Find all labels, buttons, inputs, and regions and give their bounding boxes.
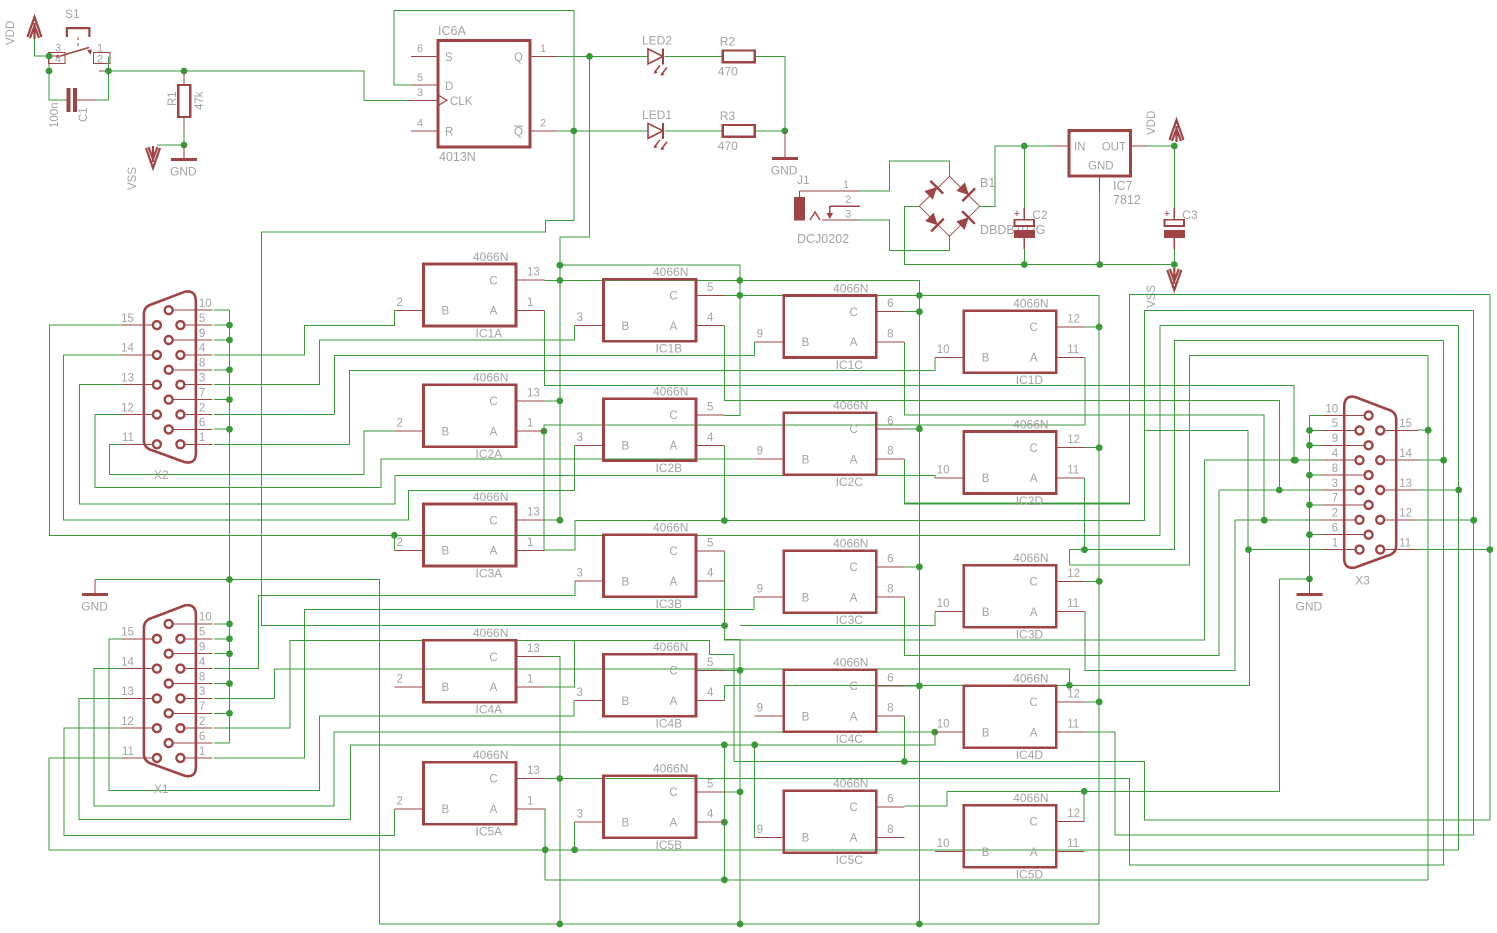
wire Q net drop to switch matrix xyxy=(560,56,590,265)
junction xyxy=(1066,682,1073,689)
junction xyxy=(1021,261,1028,268)
wire IC3B A to X3 pin4 south loop xyxy=(724,460,1204,640)
junction xyxy=(556,921,563,928)
junction xyxy=(721,741,728,748)
power symbol VDD (top-left) xyxy=(28,17,42,39)
svg-text:R: R xyxy=(445,127,453,139)
junction xyxy=(916,308,923,315)
svg-text:5: 5 xyxy=(707,537,713,549)
svg-text:15: 15 xyxy=(121,627,134,639)
wire IC2B A drop xyxy=(723,445,725,520)
4066 analog switch IC5D xyxy=(935,791,1085,882)
svg-text:14: 14 xyxy=(1399,448,1412,460)
svg-text:C: C xyxy=(1030,817,1038,829)
svg-text:IC1A: IC1A xyxy=(476,326,503,340)
4066 analog switch IC1B xyxy=(575,265,725,356)
svg-text:DBDB102G: DBDB102G xyxy=(980,223,1045,237)
wire IC7 GND to rail xyxy=(1099,191,1101,264)
wire row1 C net east xyxy=(560,280,920,924)
svg-text:4: 4 xyxy=(707,687,714,699)
svg-text:IC3A: IC3A xyxy=(476,566,503,580)
svg-text:12: 12 xyxy=(121,402,134,414)
svg-text:1: 1 xyxy=(1332,537,1338,549)
connector J1 DCJ0202 power jack xyxy=(794,191,860,220)
svg-text:GND: GND xyxy=(1296,600,1323,614)
connector X2 (DB15) xyxy=(121,291,213,482)
svg-text:12: 12 xyxy=(1067,314,1080,326)
wire X3 GND tap xyxy=(1279,578,1309,580)
svg-text:4066N: 4066N xyxy=(473,748,508,762)
junction xyxy=(721,876,728,883)
svg-text:4066N: 4066N xyxy=(833,281,868,295)
svg-text:13: 13 xyxy=(527,765,540,777)
svg-text:2: 2 xyxy=(1332,508,1338,520)
junction xyxy=(1096,698,1103,705)
svg-text:1: 1 xyxy=(527,537,533,549)
wire OUT to VDD/C3 xyxy=(1146,145,1174,147)
svg-text:+: + xyxy=(1014,208,1020,220)
svg-text:C: C xyxy=(1030,697,1038,709)
svg-text:+: + xyxy=(1164,208,1170,220)
wire GND stem xyxy=(784,131,786,157)
svg-text:11: 11 xyxy=(122,432,134,444)
wire Q vertical colA xyxy=(559,265,561,520)
ground (R1) xyxy=(171,158,197,161)
wire Q net spine row1 xyxy=(560,265,740,415)
junction xyxy=(1306,442,1313,449)
svg-text:11: 11 xyxy=(122,746,134,758)
wire IC1B C join xyxy=(724,294,740,296)
wire X1 pin2 to IC4A A net xyxy=(214,640,575,728)
svg-text:11: 11 xyxy=(1399,537,1411,549)
4066 analog switch IC3D xyxy=(935,551,1085,642)
wire bridge minus to GND rail xyxy=(905,206,1175,264)
svg-text:11: 11 xyxy=(1067,465,1079,477)
wire VDD to S1 xyxy=(35,39,50,56)
svg-text:7812: 7812 xyxy=(1113,193,1141,207)
svg-text:B: B xyxy=(802,833,810,845)
wire X1 pin6 xyxy=(214,742,230,744)
svg-text:A: A xyxy=(670,696,678,708)
junction xyxy=(916,563,923,570)
svg-text:A: A xyxy=(1030,353,1038,365)
svg-text:1: 1 xyxy=(199,432,205,444)
svg-text:4066N: 4066N xyxy=(653,521,688,535)
svg-text:12: 12 xyxy=(1399,508,1412,520)
svg-text:R1: R1 xyxy=(167,91,179,106)
wire IC5B B riser xyxy=(574,822,576,850)
svg-text:C: C xyxy=(489,396,497,408)
svg-text:D: D xyxy=(445,81,453,93)
wire X3 pin15 vertical xyxy=(1427,356,1429,880)
wire Qbar to LED1 xyxy=(557,130,648,132)
svg-text:5: 5 xyxy=(417,72,423,84)
junction xyxy=(737,921,744,928)
4066 analog switch IC1A xyxy=(395,250,545,341)
svg-text:B: B xyxy=(982,847,990,859)
svg-text:4066N: 4066N xyxy=(1013,297,1048,311)
ground (X1/X2) xyxy=(82,593,108,596)
svg-text:13: 13 xyxy=(527,643,540,655)
4066 analog switch IC1C xyxy=(755,281,905,372)
svg-text:8: 8 xyxy=(887,824,893,836)
svg-text:2: 2 xyxy=(199,716,205,728)
svg-text:B: B xyxy=(622,576,630,588)
svg-text:IC4B: IC4B xyxy=(656,716,683,730)
svg-text:4066N: 4066N xyxy=(833,777,868,791)
svg-text:8: 8 xyxy=(199,671,205,683)
svg-text:4066N: 4066N xyxy=(473,371,508,385)
svg-text:A: A xyxy=(490,682,498,694)
junction xyxy=(226,576,233,583)
svg-text:6: 6 xyxy=(887,672,893,684)
4066 analog switch IC2A xyxy=(395,371,545,462)
svg-text:Q: Q xyxy=(514,127,523,139)
junction xyxy=(1261,517,1268,524)
svg-text:5: 5 xyxy=(707,657,713,669)
ground (LED) xyxy=(772,157,798,160)
wire S1 to R1/CLK net xyxy=(109,71,410,100)
junction xyxy=(226,366,233,373)
junction xyxy=(226,621,233,628)
svg-text:1: 1 xyxy=(199,746,205,758)
junction xyxy=(916,682,923,689)
wire bus 778 loop to X3 pin14 bus xyxy=(560,779,1445,865)
svg-text:9: 9 xyxy=(757,446,763,458)
wire R1 to GND xyxy=(183,131,185,145)
wire X1 pin13 bus xyxy=(79,698,724,819)
svg-text:C: C xyxy=(489,652,497,664)
svg-text:3: 3 xyxy=(417,87,423,99)
svg-text:11: 11 xyxy=(1067,344,1079,356)
wire xyxy=(157,144,184,146)
4066 analog switch IC3C xyxy=(755,536,905,627)
wire C1 right to junction xyxy=(95,57,109,101)
svg-text:4066N: 4066N xyxy=(1013,551,1048,565)
svg-text:A: A xyxy=(850,711,858,723)
junction xyxy=(1291,457,1298,464)
svg-text:15: 15 xyxy=(1399,418,1412,430)
junction xyxy=(751,741,758,748)
svg-text:B: B xyxy=(982,607,990,619)
resistor R3 470 xyxy=(723,125,755,137)
svg-text:10: 10 xyxy=(937,598,950,610)
wire J1 pin3 to bridge bottom xyxy=(859,220,950,251)
svg-text:10: 10 xyxy=(199,298,212,310)
wire X1 pin14 to IC5A B xyxy=(64,728,395,835)
svg-text:11: 11 xyxy=(1067,598,1079,610)
wire C-col to D-col link xyxy=(740,295,1099,924)
svg-text:9: 9 xyxy=(757,703,763,715)
svg-text:IC1C: IC1C xyxy=(836,358,864,372)
wire GND comb vertical X2/X1 xyxy=(229,310,231,743)
svg-text:VDD: VDD xyxy=(5,21,17,45)
svg-text:A: A xyxy=(850,592,858,604)
svg-text:IC6A: IC6A xyxy=(438,24,466,38)
connector X3 (DB15) xyxy=(1322,397,1418,588)
wire IC1D A / IC2A A / IC3A A bus xyxy=(544,357,1085,550)
svg-text:8: 8 xyxy=(887,329,893,341)
junction xyxy=(1470,517,1477,524)
svg-text:4: 4 xyxy=(417,118,423,130)
svg-text:14: 14 xyxy=(121,343,134,355)
wire C3 bottom to rail xyxy=(1173,249,1175,265)
wire R2 to GND corner xyxy=(755,56,785,130)
wire IC1C A output to X3 pin2 xyxy=(905,342,1265,520)
svg-text:6: 6 xyxy=(887,553,893,565)
svg-text:2: 2 xyxy=(97,54,103,66)
svg-text:CLK: CLK xyxy=(450,96,473,108)
junction xyxy=(916,425,923,432)
junction xyxy=(931,729,938,736)
junction xyxy=(736,277,743,284)
junction xyxy=(1261,517,1268,524)
svg-text:470: 470 xyxy=(718,139,738,153)
svg-text:470: 470 xyxy=(718,64,738,78)
svg-text:GND: GND xyxy=(771,164,798,178)
wire LED2 to R2 xyxy=(665,55,723,57)
wire X1 gnd pin xyxy=(214,623,230,625)
wire xyxy=(48,56,50,71)
svg-text:A: A xyxy=(670,576,678,588)
wire IC2A C join xyxy=(544,400,560,402)
svg-text:12: 12 xyxy=(1067,568,1080,580)
svg-text:R3: R3 xyxy=(720,109,736,123)
wire GND drop to bottom bus xyxy=(230,580,380,925)
wire X1 gnd pin xyxy=(214,653,230,655)
wire IC4C C join xyxy=(904,685,919,687)
svg-text:6: 6 xyxy=(199,417,205,429)
junction xyxy=(1081,546,1088,553)
junction xyxy=(557,262,564,269)
junction xyxy=(105,68,112,75)
svg-text:S1: S1 xyxy=(65,7,80,21)
wire IC2C C join xyxy=(904,428,919,430)
wire IC5A A riser xyxy=(543,809,546,880)
wire X3 pin13 vertical xyxy=(1458,325,1460,849)
wire IC4D C join xyxy=(1085,701,1100,703)
wire IC3B C riser to Qbar xyxy=(724,551,726,626)
svg-text:6: 6 xyxy=(199,731,205,743)
svg-text:IC2D: IC2D xyxy=(1016,494,1044,508)
junction xyxy=(391,532,398,539)
svg-text:B: B xyxy=(622,817,630,829)
svg-text:7: 7 xyxy=(199,701,205,713)
wire X1 pin1 to IC3C B xyxy=(214,597,754,758)
wire GND tap xyxy=(95,579,229,581)
wire IC2D A to R4 bus xyxy=(1084,478,1086,550)
wire C2 bottom to rail xyxy=(1023,249,1025,265)
junction xyxy=(721,819,728,826)
svg-text:C3: C3 xyxy=(1182,208,1198,222)
LED LED2 xyxy=(648,48,667,75)
svg-text:3: 3 xyxy=(199,373,205,385)
wire IC5A C join xyxy=(544,778,560,780)
svg-text:10: 10 xyxy=(937,719,950,731)
svg-text:12: 12 xyxy=(1067,808,1080,820)
wire LED1 to R3 xyxy=(665,130,723,132)
svg-text:8: 8 xyxy=(887,703,893,715)
junction xyxy=(226,322,233,329)
junction xyxy=(1306,502,1313,509)
svg-text:10: 10 xyxy=(937,838,950,850)
wire IC1B A to X3 pin3 xyxy=(724,326,1279,490)
svg-text:9: 9 xyxy=(757,824,763,836)
junction xyxy=(557,277,564,284)
wire J1 pin1 to bridge top xyxy=(860,161,950,191)
wire IC4B C join xyxy=(724,669,740,671)
svg-text:10: 10 xyxy=(199,612,212,624)
resistor R1 47k xyxy=(178,71,190,131)
wire IC3C A to X3 pin3 south loop xyxy=(904,490,1219,655)
power symbol VSS (top-left) xyxy=(146,146,160,168)
svg-text:5: 5 xyxy=(1332,418,1338,430)
wire C2 top xyxy=(1023,146,1025,208)
junction xyxy=(1455,487,1462,494)
svg-text:3: 3 xyxy=(199,686,205,698)
svg-text:A: A xyxy=(850,454,858,466)
svg-text:A: A xyxy=(1030,847,1038,859)
svg-text:3: 3 xyxy=(845,209,851,221)
svg-text:GND: GND xyxy=(81,600,108,614)
svg-text:IC5B: IC5B xyxy=(656,838,683,852)
junction xyxy=(736,292,743,299)
junction xyxy=(1276,487,1283,494)
svg-text:10: 10 xyxy=(1325,403,1338,415)
wire bus 761 loop to X3 pin11 bus xyxy=(734,762,1490,821)
junction xyxy=(571,846,578,853)
svg-text:6: 6 xyxy=(887,298,893,310)
wire IC5C C hook xyxy=(904,791,947,806)
4066 analog switch IC1D xyxy=(935,297,1085,388)
svg-text:DCJ0202: DCJ0202 xyxy=(797,232,849,246)
svg-text:13: 13 xyxy=(527,507,540,519)
svg-text:C: C xyxy=(849,802,857,814)
svg-text:9: 9 xyxy=(757,584,763,596)
power symbol VSS (supply) xyxy=(1167,268,1181,290)
svg-text:9: 9 xyxy=(199,642,205,654)
wire X2 pin14 to IC2B B xyxy=(64,355,575,520)
junction xyxy=(226,680,233,687)
wire R3 to GND xyxy=(755,130,785,132)
wire X3 pin4 line xyxy=(1205,459,1323,461)
svg-text:4066N: 4066N xyxy=(1013,417,1048,431)
wire bottom control bus xyxy=(380,923,1100,925)
wire X3 gnd pin xyxy=(1310,534,1323,536)
svg-text:6: 6 xyxy=(887,794,893,806)
svg-text:C: C xyxy=(849,307,857,319)
svg-text:X1: X1 xyxy=(154,782,169,796)
svg-text:6: 6 xyxy=(1332,523,1338,535)
svg-text:IC4D: IC4D xyxy=(1016,748,1044,762)
junction xyxy=(541,428,548,435)
ground (X3) xyxy=(1297,593,1323,596)
junction xyxy=(737,667,744,674)
wire X2 pin11 to IC2A B xyxy=(110,431,395,475)
svg-text:A: A xyxy=(670,441,678,453)
svg-text:12: 12 xyxy=(1067,688,1080,700)
junction xyxy=(721,517,728,524)
svg-text:47k: 47k xyxy=(194,91,206,110)
svg-text:C: C xyxy=(669,291,677,303)
wire IC4B A jog xyxy=(723,685,725,700)
svg-text:4066N: 4066N xyxy=(653,385,688,399)
svg-text:C: C xyxy=(489,275,497,287)
4066 analog switch IC4C xyxy=(755,655,905,746)
wire X3 pin11 stub line xyxy=(1418,549,1490,551)
wire bridge plus to IC7 IN xyxy=(980,146,1053,206)
svg-text:15: 15 xyxy=(121,313,134,325)
bridge rectifier B1 DBDB102G xyxy=(919,176,979,236)
svg-text:A: A xyxy=(490,546,498,558)
svg-text:IC5C: IC5C xyxy=(836,853,864,867)
wire X3 gnd south drop xyxy=(947,579,1279,791)
wire X2 pin3 to IC1B B xyxy=(214,326,575,385)
svg-text:3: 3 xyxy=(577,809,583,821)
junction xyxy=(1021,143,1028,150)
svg-text:2: 2 xyxy=(397,418,403,430)
svg-text:A: A xyxy=(490,306,498,318)
wire IC3A A riser to R2 bus xyxy=(544,521,575,551)
wire IC2D C join xyxy=(1085,447,1100,449)
svg-text:5: 5 xyxy=(707,282,713,294)
svg-text:B: B xyxy=(442,426,450,438)
wire X2 pin10 xyxy=(214,309,230,311)
svg-text:2: 2 xyxy=(397,537,403,549)
junction xyxy=(556,775,563,782)
junction xyxy=(46,68,53,75)
junction xyxy=(226,710,233,717)
wire X3 pin11 vertical xyxy=(1489,295,1491,821)
wire X3 pin13 stub line xyxy=(1418,489,1459,491)
wire IC2C A to X3 pin11 net (R1) xyxy=(904,295,1490,504)
svg-text:B: B xyxy=(442,804,450,816)
4066 analog switch IC5C xyxy=(755,777,905,868)
svg-text:5: 5 xyxy=(199,313,205,325)
svg-text:GND: GND xyxy=(170,165,197,179)
svg-text:4066N: 4066N xyxy=(653,640,688,654)
svg-text:A: A xyxy=(670,817,678,829)
wire X2 gnd pin xyxy=(214,324,230,326)
svg-text:13: 13 xyxy=(121,373,134,385)
junction xyxy=(1440,457,1447,464)
svg-text:2: 2 xyxy=(540,118,546,130)
svg-text:1: 1 xyxy=(843,179,849,191)
wire IC3D A to X3 pin2 south loop xyxy=(1085,520,1235,670)
junction xyxy=(46,53,53,60)
wire X1 pin15 bus to X3 pin13 xyxy=(49,758,1459,850)
wire IC3A B riser xyxy=(393,535,395,550)
svg-text:C: C xyxy=(489,515,497,527)
svg-text:4: 4 xyxy=(707,432,714,444)
wire IC3D B feed xyxy=(740,612,935,626)
svg-text:B: B xyxy=(442,306,450,318)
svg-text:5: 5 xyxy=(199,627,205,639)
wire X2 pin4 to IC1A B xyxy=(214,311,395,355)
switch S1 xyxy=(49,28,110,71)
svg-text:7: 7 xyxy=(199,387,205,399)
svg-text:4066N: 4066N xyxy=(473,626,508,640)
wire IC4D A to X3 pin12 bus xyxy=(1085,732,1475,835)
svg-text:12: 12 xyxy=(121,716,134,728)
wire X2 gnd pin xyxy=(214,339,230,341)
svg-text:13: 13 xyxy=(527,387,540,399)
svg-text:B: B xyxy=(622,696,630,708)
svg-text:5: 5 xyxy=(707,402,713,414)
svg-text:C: C xyxy=(669,787,677,799)
4066 analog switch IC2D xyxy=(935,417,1085,508)
svg-text:1: 1 xyxy=(527,418,533,430)
